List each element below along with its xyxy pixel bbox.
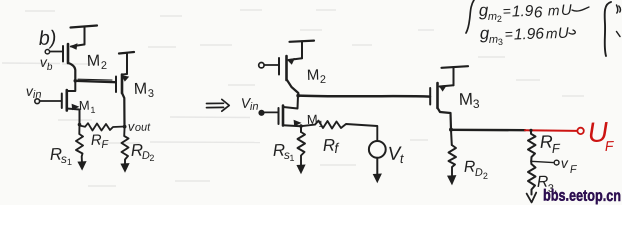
svg-text:b: b bbox=[47, 62, 53, 73]
svg-text:out: out bbox=[135, 121, 152, 134]
svg-text:in: in bbox=[250, 101, 259, 113]
svg-text:3: 3 bbox=[498, 37, 503, 47]
svg-text:in: in bbox=[33, 89, 42, 101]
svg-text:2: 2 bbox=[101, 60, 108, 72]
svg-text:=: = bbox=[505, 26, 514, 42]
svg-text:b): b) bbox=[38, 27, 57, 50]
svg-text:F: F bbox=[552, 141, 562, 156]
svg-text:M: M bbox=[307, 112, 318, 127]
svg-text:=: = bbox=[503, 3, 512, 19]
svg-text:M: M bbox=[458, 90, 473, 109]
svg-text:m: m bbox=[546, 25, 559, 41]
svg-text:3: 3 bbox=[148, 88, 155, 100]
svg-text:1.9: 1.9 bbox=[512, 3, 535, 21]
svg-text:F: F bbox=[570, 164, 578, 176]
svg-text:v: v bbox=[561, 155, 570, 171]
svg-text:2: 2 bbox=[149, 153, 154, 163]
svg-text:M: M bbox=[87, 53, 101, 70]
svg-text:1: 1 bbox=[318, 119, 323, 129]
svg-text:t: t bbox=[400, 151, 406, 166]
svg-text:2: 2 bbox=[497, 14, 502, 24]
svg-text:6: 6 bbox=[534, 4, 544, 21]
svg-text:m: m bbox=[548, 2, 561, 18]
svg-text:1.96: 1.96 bbox=[514, 25, 545, 43]
svg-text:F: F bbox=[101, 139, 109, 151]
svg-text:U: U bbox=[561, 2, 573, 19]
svg-text:M: M bbox=[134, 81, 148, 98]
svg-text:M: M bbox=[79, 98, 90, 113]
svg-text:2: 2 bbox=[320, 74, 327, 86]
svg-text:f: f bbox=[334, 140, 341, 156]
svg-text:bbs.eetop.cn: bbs.eetop.cn bbox=[543, 188, 621, 205]
svg-text:2: 2 bbox=[483, 171, 488, 181]
svg-text:M: M bbox=[307, 67, 320, 84]
svg-text:3: 3 bbox=[473, 97, 480, 111]
svg-text:m: m bbox=[488, 11, 498, 23]
svg-text:F: F bbox=[605, 138, 616, 154]
svg-text:1: 1 bbox=[289, 153, 294, 163]
svg-text:1: 1 bbox=[67, 157, 72, 167]
svg-text:1: 1 bbox=[90, 105, 95, 115]
svg-text:m: m bbox=[489, 34, 499, 46]
svg-text:U: U bbox=[558, 25, 570, 42]
